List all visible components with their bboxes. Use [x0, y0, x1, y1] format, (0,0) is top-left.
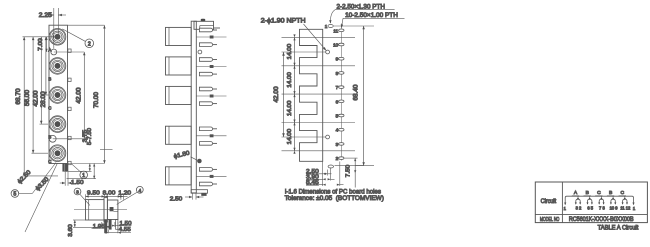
detail view centerline [74, 209, 127, 211]
side view ground terminal jack 5 [196, 175, 226, 177]
PCB NPTH hole bottom phi1.90 [326, 135, 330, 139]
circuit jack symbol B pins 6 5 [584, 190, 594, 210]
svg-text:2.25: 2.25 [39, 13, 53, 19]
detail dimension 1.50 [112, 221, 132, 227]
svg-text:9: 9 [336, 57, 339, 62]
dimension 42.00 vertical line (left) [33, 37, 42, 124]
svg-text:5: 5 [14, 192, 17, 198]
front view RCA jack C3 concentric rings [49, 87, 66, 104]
dimension 2.25 top [39, 8, 66, 49]
front PCB pins below plate [63, 164, 68, 172]
dimension 1.50 pin width [60, 172, 85, 186]
svg-text:3: 3 [336, 142, 339, 147]
svg-text:6 5: 6 5 [587, 205, 593, 210]
PCB pad hole 8 (2.50x1.00 PTH) [336, 71, 344, 76]
svg-text:C: C [621, 190, 625, 196]
svg-text:14.00: 14.00 [287, 44, 293, 60]
side view lower solder lug jack 4 [199, 142, 217, 146]
dimension 3.75 pin length [65, 130, 92, 172]
dimension 2.50 plate thickness [170, 193, 204, 202]
detail view pins [105, 220, 118, 233]
svg-text:1: 1 [564, 206, 567, 211]
side view lower solder lug jack 2 [199, 72, 217, 76]
side view upper solder lug jack 2 [199, 58, 217, 62]
svg-text:4: 4 [138, 188, 141, 194]
circuit ground bus [564, 196, 636, 211]
svg-text:3: 3 [76, 190, 79, 196]
detail view jack barrel side [86, 200, 105, 220]
detail dimension 3.60 [68, 220, 101, 237]
PCB pad hole 9 (2.50x1.00 PTH) [336, 57, 344, 62]
svg-text:70.00: 70.00 [94, 91, 100, 108]
svg-text:3.60: 3.60 [68, 223, 74, 236]
svg-text:8.00: 8.00 [103, 191, 116, 197]
svg-text:Circuit: Circuit [541, 199, 557, 205]
label phi 2.50 with leader [17, 163, 56, 194]
front view RCA jack B4 concentric rings [49, 116, 66, 133]
svg-text:7: 7 [336, 85, 339, 90]
svg-text:7.00: 7.00 [38, 38, 44, 51]
side view upper solder lug jack 1 [199, 28, 217, 32]
circuit jack symbol C pins 7 8 [595, 190, 605, 210]
svg-text:RC5601K-XXXX-B0XX00B: RC5601K-XXXX-B0XX00B [569, 217, 634, 223]
PCB pad hole 7 (2.50x1.00 PTH) [336, 85, 344, 90]
note text PCB [285, 188, 384, 202]
front locating peg hole (phi 2.50) top [51, 49, 57, 55]
side view jack barrel 2 [166, 57, 192, 75]
svg-text:B: B [586, 190, 589, 196]
svg-text:5-7.50: 5-7.50 [87, 128, 93, 145]
detail view flange [104, 198, 107, 222]
svg-text:14.00: 14.00 [287, 72, 293, 88]
svg-text:TABLE A Circuit: TABLE A Circuit [598, 224, 639, 231]
svg-text:3 2: 3 2 [576, 205, 582, 210]
side view mounting plate [191, 21, 196, 193]
svg-text:2.50: 2.50 [170, 196, 183, 202]
svg-text:42.00: 42.00 [33, 90, 39, 107]
svg-text:42.00: 42.00 [77, 87, 83, 104]
svg-text:10: 10 [333, 43, 339, 48]
svg-text:1.50: 1.50 [120, 221, 133, 227]
extension tick near 70.00 line [100, 149, 113, 151]
svg-text:MODEL NO: MODEL NO [540, 217, 560, 223]
terminal tab right of jack 4 [68, 136, 71, 139]
svg-text:Tolerance: ±0.05 (BOTTOMVIEW): Tolerance: ±0.05 (BOTTOMVIEW) [285, 195, 384, 202]
dimension 42.00 vertical (right, peg to peg) [53, 52, 86, 139]
detail dimension 1.95 [92, 222, 109, 234]
PCB pad hole 1 (2.50x1.30 PTH) [325, 24, 334, 29]
dimension 7.50 PCB [345, 158, 364, 187]
side view ground terminal jack 2 [196, 65, 226, 67]
side view jack barrel 3 [166, 86, 192, 104]
dimension 28.00 vertical line [41, 37, 47, 108]
balloon callout 1 [72, 164, 88, 179]
svg-text:5: 5 [336, 114, 339, 119]
detail dimension 4.55 [106, 227, 132, 234]
front locating peg hole (phi 3.50) bottom [49, 135, 56, 142]
side view ground terminal jack 4 [196, 135, 226, 137]
PCB NPTH hole top phi1.90 [326, 50, 330, 54]
svg-text:1.20: 1.20 [118, 191, 131, 197]
front view RCA jack C5 concentric rings [49, 145, 66, 162]
dimension 2.50 PCB [306, 169, 332, 175]
svg-text:68.70: 68.70 [16, 88, 22, 105]
svg-text:4: 4 [336, 128, 339, 133]
PCB pad hole 5 (2.50x1.00 PTH) [336, 114, 344, 119]
svg-text:1.95: 1.95 [93, 224, 106, 230]
side view upper solder lug jack 3 [199, 87, 217, 91]
svg-text:6: 6 [336, 99, 339, 104]
svg-text:10 9: 10 9 [610, 205, 619, 210]
front view housing plate [49, 25, 68, 163]
dimension 14.00 x4 PCB pitch [287, 34, 296, 153]
svg-text:56.00: 56.00 [25, 89, 31, 106]
svg-text:4.55: 4.55 [119, 227, 132, 233]
svg-text:2: 2 [336, 156, 339, 161]
PCB pad hole 3 (2.50x1.00 PTH) [336, 142, 344, 147]
PCB pad column centerline [340, 24, 342, 161]
svg-text:42.00: 42.00 [274, 86, 280, 103]
dimension 56.00 vertical line [25, 37, 34, 153]
side view ground terminal jack 1 [196, 36, 226, 38]
dimension 68.40 PCB overall [334, 26, 374, 166]
svg-text:7.50: 7.50 [345, 165, 351, 178]
terminal tab right of jack 3 [68, 107, 71, 110]
extension lines from jack rows to left dims [23, 37, 59, 176]
dimension 5-7.50 pin length [67, 128, 97, 179]
side view top bracket lug [194, 19, 220, 30]
svg-text:68.40: 68.40 [354, 84, 360, 101]
PCB pad hole 6 (2.50x1.00 PTH) [336, 99, 344, 104]
label 2-2.50x1.30 PTH with leader [329, 4, 395, 24]
label phi 3.50 with leader [25, 163, 58, 232]
svg-text:ϕ1.80: ϕ1.80 [173, 150, 191, 160]
terminal tab right of jack 1 [68, 49, 71, 52]
label 2-phi1.90 NPTH with leader [261, 18, 326, 51]
svg-text:C: C [597, 190, 601, 196]
side view bottom peg (phi 1.80) filled [197, 159, 201, 163]
dimension 8.45 PCB [306, 180, 344, 186]
svg-text:1: 1 [82, 173, 85, 179]
svg-text:14.00: 14.00 [287, 129, 293, 145]
PCB bottom dims extension lines [323, 161, 340, 186]
PCB pad hole 4 (2.50x1.00 PTH) [336, 128, 344, 133]
svg-text:A: A [574, 190, 578, 196]
side view upper solder lug jack 4 [199, 127, 217, 131]
dimension 68.70 vertical line [16, 37, 25, 176]
dimension 3.90 PCB [306, 174, 335, 180]
svg-text:1: 1 [633, 206, 636, 211]
side view lower solder lug jack 3 [199, 102, 217, 106]
svg-text:28.00: 28.00 [41, 91, 47, 108]
dimension 42.00 PCB (NPTH pitch) [274, 52, 285, 137]
PCB bottom view comb outline [300, 29, 323, 161]
detail view rear body [107, 200, 118, 220]
dimension 7.00 vertical (jack to peg) [38, 37, 48, 52]
svg-text:14.00: 14.00 [287, 101, 293, 117]
svg-text:C: C [48, 106, 51, 111]
terminal tab right of jack 2 [68, 78, 71, 81]
label phi 1.80 with leader [173, 150, 197, 160]
label 10-2.50x1.00 PTH with leader [341, 12, 405, 28]
terminal tab right of jack 5 [68, 161, 71, 164]
side view top peg hole [198, 50, 202, 54]
svg-text:B: B [48, 76, 51, 81]
svg-text:1.50: 1.50 [71, 180, 84, 186]
svg-text:C: C [48, 159, 51, 164]
front view RCA jack A1 concentric rings [49, 29, 66, 46]
PCB pad hole 2 (2.50x1.00 PTH) [336, 156, 344, 161]
PCB left extension lines at jack rows [282, 37, 356, 150]
svg-text:8.45: 8.45 [306, 180, 319, 186]
balloon callout 3 [74, 188, 90, 205]
balloon callout 4 [117, 186, 144, 204]
PCB pad hole 11 (2.50x1.00 PTH) [333, 28, 344, 33]
svg-text:2: 2 [88, 42, 91, 48]
side view jack barrel 1 [166, 27, 192, 45]
svg-text:11: 11 [333, 28, 338, 33]
circuit jack symbol A pins 3 2 [572, 190, 582, 210]
svg-text:1: 1 [325, 24, 328, 29]
svg-text:7 8: 7 8 [599, 205, 605, 210]
PCB pad hole 10 (2.50x1.00 PTH) [333, 43, 344, 48]
PCB pad hole 12 (2.50x1.30 PTH) bottom [328, 165, 333, 168]
detail dims 9.50 8.00 1.20 [86, 191, 132, 200]
side view jack barrel 4 [166, 126, 192, 144]
svg-text:2-ϕ1.90 NPTH: 2-ϕ1.90 NPTH [261, 18, 306, 25]
side view jack barrel 5 [166, 167, 192, 185]
table frame [535, 182, 647, 223]
side view upper solder lug jack 5 [199, 168, 217, 172]
balloon callout 5 [11, 190, 32, 198]
svg-text:ϕ2.50: ϕ2.50 [17, 169, 33, 185]
svg-text:8: 8 [336, 71, 339, 76]
side view bottom foot [191, 190, 207, 196]
circuit jack symbol B pins 10 9 [607, 190, 618, 210]
front view RCA jack B2 concentric rings [49, 58, 66, 75]
svg-text:B: B [609, 190, 612, 196]
side view lower solder lug jack 5 [199, 182, 217, 186]
svg-text:11 12: 11 12 [620, 205, 631, 210]
side view ground terminal jack 3 [196, 95, 226, 97]
dimension 70.00 vertical (plate height) [68, 25, 106, 163]
svg-text:9.50: 9.50 [87, 191, 100, 197]
svg-text:ϕ3.50: ϕ3.50 [35, 176, 51, 192]
balloon callout 2 [62, 29, 93, 48]
circuit jack symbol C pins 11 12 [619, 190, 631, 210]
side view lower solder lug jack 1 [199, 43, 217, 47]
